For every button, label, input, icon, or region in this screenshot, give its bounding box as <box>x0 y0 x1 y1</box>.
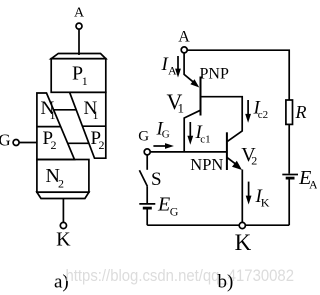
P1 region box with 3D lid <box>51 54 106 93</box>
wire G lead (a) <box>19 142 37 144</box>
label E_G <box>157 194 179 219</box>
divider N1/P2 left <box>37 126 61 128</box>
bridge P2-P2 <box>68 142 89 144</box>
label N2 <box>46 165 65 190</box>
label N1 left <box>41 98 56 122</box>
svg-text:2: 2 <box>251 154 257 168</box>
wire battery to bottom rail <box>146 210 148 226</box>
svg-text:A: A <box>309 178 317 192</box>
svg-text:S: S <box>151 169 162 190</box>
label P2 left <box>43 128 57 152</box>
svg-text:G: G <box>0 131 11 150</box>
label P1 <box>72 63 88 89</box>
right column N1/P2 outline <box>70 92 106 158</box>
svg-text:1: 1 <box>178 101 185 116</box>
svg-text:G: G <box>138 129 149 145</box>
transistor V2 base bar <box>226 132 228 170</box>
svg-text:NPN: NPN <box>190 155 223 174</box>
wire top rail A to R <box>187 50 289 100</box>
label I_c1 <box>195 122 211 146</box>
svg-text:2: 2 <box>51 138 57 152</box>
node G (circuit b) <box>138 129 150 155</box>
annotation arrow I_c1 <box>187 122 193 145</box>
wire A down to V1 emitter <box>184 53 193 82</box>
V1 emitter arrowhead <box>190 79 199 87</box>
node A (circuit b) <box>178 28 190 53</box>
bridge N1-N1 <box>54 109 77 111</box>
wire V2 emitter <box>227 157 237 164</box>
svg-text:K: K <box>261 196 270 210</box>
wire bottom rail <box>147 224 289 226</box>
annotation arrow I_G <box>153 143 174 149</box>
battery E_A <box>282 175 298 179</box>
wire E_A to bottom rail <box>288 180 290 226</box>
svg-text:2: 2 <box>58 176 64 190</box>
label E_A <box>298 167 318 192</box>
wire switch to battery <box>146 186 148 203</box>
annotation arrow I_c2 <box>245 100 251 123</box>
battery E_G <box>139 204 155 208</box>
svg-text:A: A <box>74 5 85 20</box>
transistor V1 base bar <box>200 77 202 116</box>
label I_K <box>255 186 270 210</box>
svg-text:1: 1 <box>82 74 88 88</box>
V2 emitter arrowhead <box>232 161 242 170</box>
svg-text:K: K <box>56 229 71 251</box>
svg-text:G: G <box>162 129 170 141</box>
svg-text:b): b) <box>218 272 234 293</box>
node K (structure a) <box>56 222 71 250</box>
svg-text:1: 1 <box>93 108 99 122</box>
node G (structure a) <box>0 131 19 150</box>
node A (structure a) <box>74 5 85 29</box>
wire A lead (a) <box>78 29 80 55</box>
switch S <box>139 169 161 190</box>
label V1 <box>167 89 185 116</box>
svg-text:c2: c2 <box>258 109 268 121</box>
node K (circuit b) <box>235 222 252 255</box>
svg-text:2: 2 <box>99 138 105 152</box>
divider N1/P2 right <box>82 125 106 127</box>
annotation arrow I_A <box>175 56 181 78</box>
svg-text:G: G <box>170 205 179 219</box>
svg-text:E: E <box>157 194 170 216</box>
svg-text:A: A <box>168 64 177 78</box>
N2 region box with 3D base <box>37 160 89 199</box>
label I_A <box>161 54 178 78</box>
left column N1/P2 outline <box>37 93 75 160</box>
label V2 <box>241 144 257 168</box>
wire G terminal down to switch <box>146 155 148 170</box>
label N1 right <box>84 98 99 122</box>
svg-text:K: K <box>235 230 252 255</box>
label I_c2 <box>253 98 269 122</box>
wire V1 collector down to gate node <box>184 110 200 152</box>
wire R to battery E_A <box>288 124 290 173</box>
svg-text:c1: c1 <box>200 134 210 146</box>
wire gate rail G to V2 base <box>150 151 226 153</box>
wire K lead (a) <box>62 199 64 223</box>
svg-text:PNP: PNP <box>200 65 229 82</box>
annotation arrow I_K <box>246 182 252 205</box>
label P2 right <box>91 128 105 152</box>
svg-text:R: R <box>295 102 307 122</box>
resistor R <box>286 100 293 124</box>
wire V1 base to V2 collector <box>202 97 243 142</box>
svg-text:A: A <box>178 28 190 45</box>
svg-text:https://blog.csdn.net/qq_41730: https://blog.csdn.net/qq_41730082 <box>66 267 295 285</box>
wire emitter down to K <box>241 170 243 223</box>
label I_G <box>156 119 170 141</box>
